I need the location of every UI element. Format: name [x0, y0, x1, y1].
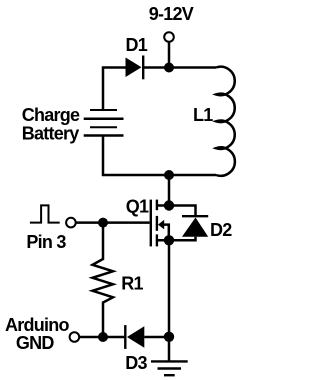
svg-text:D2: D2: [210, 220, 232, 240]
svg-text:D3: D3: [125, 353, 147, 373]
svg-text:GND: GND: [16, 333, 55, 353]
svg-text:Q1: Q1: [126, 196, 149, 216]
svg-text:Charge: Charge: [22, 105, 80, 125]
svg-text:9-12V: 9-12V: [149, 4, 194, 24]
svg-text:Battery: Battery: [22, 124, 80, 144]
svg-text:Arduino: Arduino: [5, 315, 69, 335]
svg-text:D1: D1: [126, 35, 148, 55]
svg-text:R1: R1: [121, 274, 143, 294]
svg-text:Pin 3: Pin 3: [26, 232, 66, 252]
svg-text:L1: L1: [193, 105, 213, 125]
